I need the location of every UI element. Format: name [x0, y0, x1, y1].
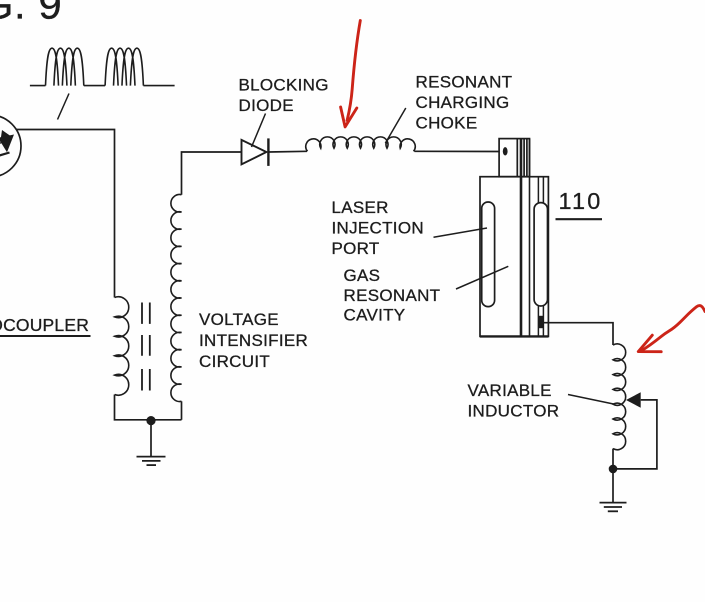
- svg-text:PORT: PORT: [332, 239, 380, 258]
- wire: choke to laser head: [414, 150, 499, 152]
- svg-text:DIODE: DIODE: [239, 96, 294, 115]
- inner wall line: [529, 139, 531, 337]
- wire: primary bottom lead: [115, 395, 182, 420]
- wire: wiper to bottom junction: [613, 400, 657, 469]
- label RESONANT CHARGING CHOKE: [416, 73, 513, 133]
- laser injection port (left window capsule): [482, 202, 495, 307]
- wire: transistor to transformer primary: [16, 130, 115, 298]
- svg-text:BLOCKING: BLOCKING: [239, 76, 329, 95]
- svg-text:INDUCTOR: INDUCTOR: [468, 401, 560, 420]
- wire: diode to choke: [268, 150, 307, 153]
- label VARIABLE INDUCTOR: [468, 381, 560, 420]
- junction dot (inductor bottom): [609, 465, 618, 474]
- wire: junction to ground: [150, 421, 152, 457]
- resonant charging choke L1: [306, 137, 415, 151]
- choke callout line: [385, 108, 406, 143]
- red annotation arrow 1 (over choke): [341, 21, 361, 127]
- svg-text:CIRCUIT: CIRCUIT: [199, 352, 270, 371]
- label OPTOCOUPLER (partial): [0, 315, 89, 335]
- svg-text:INJECTION: INJECTION: [332, 218, 424, 237]
- label BLOCKING DIODE: [239, 76, 329, 115]
- wire: secondary bottom lead: [181, 401, 183, 420]
- transformer primary winding: [115, 297, 129, 395]
- svg-text:GAS: GAS: [344, 266, 381, 285]
- svg-text:RESONANT: RESONANT: [344, 286, 441, 305]
- svg-text:LASER: LASER: [332, 198, 389, 217]
- right discharge tube (lower neck): [538, 306, 543, 337]
- ground symbol (variable inductor): [600, 503, 627, 512]
- wire: cavity electrode to variable inductor: [543, 323, 613, 345]
- gas resonant cavity callout line: [456, 266, 508, 289]
- laser head terminal dot: [503, 147, 508, 155]
- waveform: pulse-burst signal: [30, 48, 175, 85]
- blocking diode callout line: [252, 114, 266, 148]
- wire: inductor bottom to ground: [612, 449, 614, 503]
- laser head (top box): [499, 139, 529, 177]
- variable inductor L2: [613, 344, 626, 450]
- transformer core (dashed): [142, 303, 150, 391]
- svg-text:CHOKE: CHOKE: [416, 114, 478, 133]
- central electrode line (thick, full height): [520, 139, 523, 337]
- 110 underline: [556, 218, 603, 220]
- label LASER INJECTION PORT: [332, 198, 424, 258]
- red annotation arrow 2 (at variable inductor): [638, 306, 705, 352]
- transformer secondary winding: [171, 195, 182, 402]
- variable inductor callout line: [568, 395, 614, 405]
- svg-text:OPTOCOUPLER: OPTOCOUPLER: [0, 315, 89, 335]
- gas resonant cavity (main box): [480, 177, 548, 337]
- optocoupler phototransistor Q1 (cut off at left edge): [0, 115, 21, 177]
- svg-text:INTENSIFIER: INTENSIFIER: [199, 331, 308, 350]
- right discharge tube (upper neck): [538, 177, 543, 203]
- wire: secondary top to blocking diode: [182, 152, 242, 195]
- svg-text:CAVITY: CAVITY: [344, 306, 406, 325]
- right discharge tube (bulb capsule): [534, 203, 547, 306]
- svg-text:110: 110: [559, 188, 603, 214]
- svg-text:RESONANT: RESONANT: [416, 73, 513, 92]
- svg-text:FIG. 9: FIG. 9: [0, 0, 62, 28]
- junction dot (transformer ground node): [146, 416, 155, 425]
- svg-text:VOLTAGE: VOLTAGE: [199, 310, 279, 329]
- svg-text:CHARGING: CHARGING: [416, 93, 510, 112]
- waveform callout line: [58, 94, 70, 120]
- ground symbol (transformer): [137, 457, 166, 466]
- label VOLTAGE INTENSIFIER CIRCUIT: [199, 310, 308, 371]
- inductor wiper arrow (filled): [626, 392, 641, 407]
- OPTOCOUPLER underline: [0, 335, 91, 337]
- svg-text:VARIABLE: VARIABLE: [468, 381, 552, 400]
- laser injection port callout line: [434, 228, 488, 237]
- blocking diode D1: [242, 138, 269, 166]
- label GAS RESONANT CAVITY: [344, 266, 441, 324]
- bottom electrode (black): [538, 316, 543, 328]
